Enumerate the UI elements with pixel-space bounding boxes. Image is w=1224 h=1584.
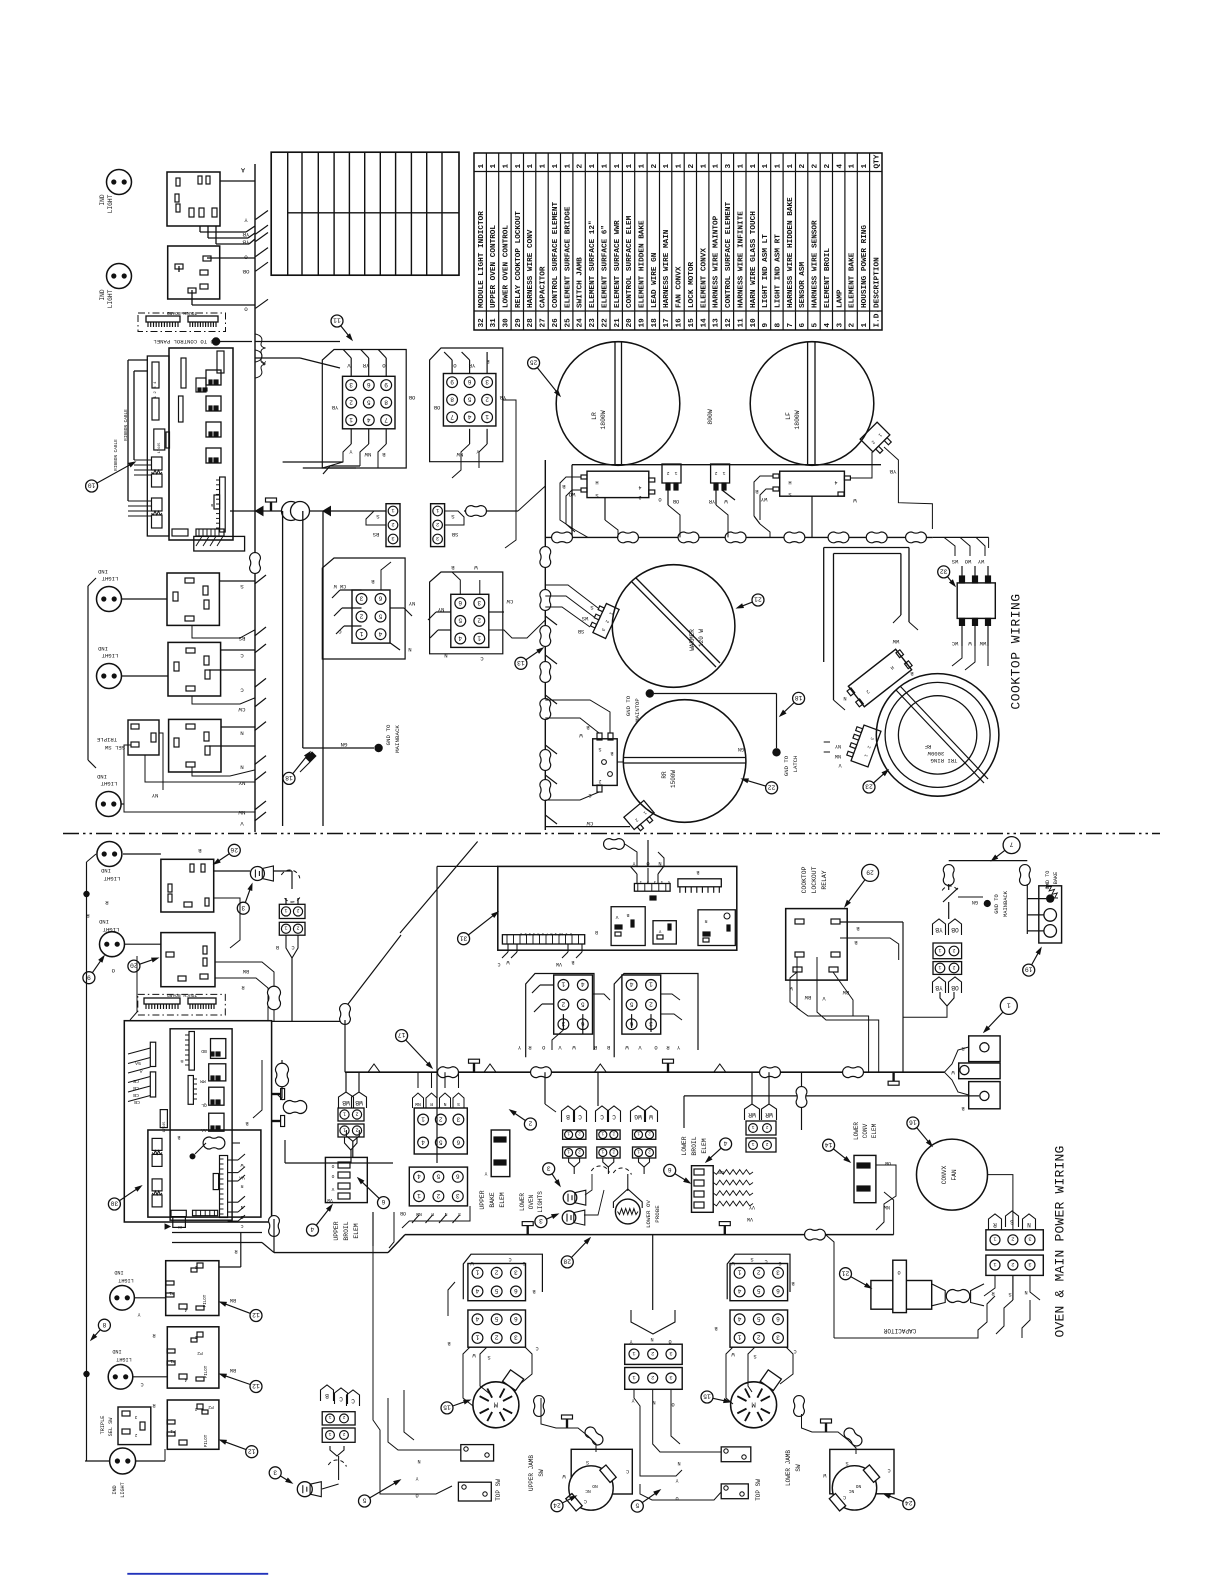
- U11a top stubs: [350, 358, 352, 376]
- svg-text:3: 3: [547, 1164, 551, 1171]
- svg-text:2: 2: [638, 494, 641, 500]
- svg-text:1: 1: [938, 964, 941, 970]
- svg-text:IND: IND: [112, 1348, 121, 1354]
- oven relay box 20: [161, 933, 215, 987]
- svg-text:A: A: [241, 166, 245, 173]
- vmerge top: [346, 1130, 359, 1141]
- 2x3 block C/W left: [463, 1254, 542, 1299]
- svg-text:N: N: [843, 695, 846, 701]
- svg-text:IND: IND: [100, 867, 111, 874]
- svg-text:1: 1: [477, 634, 481, 641]
- svg-text:1: 1: [674, 470, 677, 476]
- svg-text:4: 4: [638, 484, 641, 490]
- svg-text:WR: WR: [765, 1111, 773, 1118]
- svg-text:S: S: [487, 1354, 490, 1360]
- svg-text:30: 30: [503, 318, 511, 328]
- svg-text:2: 2: [688, 164, 696, 169]
- callout 12c: [222, 1441, 246, 1450]
- svg-text:WY: WY: [977, 558, 984, 564]
- left drop wire: [801, 1072, 803, 1130]
- lower jamb wires: [825, 1423, 827, 1432]
- wire stub: [256, 299, 269, 308]
- svg-text:1: 1: [417, 1192, 421, 1199]
- ind light IND8: [110, 1448, 136, 1474]
- control board inner column: [147, 356, 169, 536]
- triple sel sw box: [128, 720, 159, 755]
- svg-text:1: 1: [391, 507, 394, 513]
- svg-text:1: 1: [700, 164, 708, 169]
- ind light IND3: [97, 587, 122, 612]
- top 1x2 connector pairs: [563, 1130, 586, 1139]
- svg-text:TOUCH BOARD: TOUCH BOARD: [167, 992, 198, 998]
- svg-text:RELAY COOKTOP LOCKOUT: RELAY COOKTOP LOCKOUT: [515, 211, 523, 308]
- svg-text:19: 19: [639, 318, 647, 328]
- diagonal long wire: [345, 935, 401, 1008]
- svg-text:IND: IND: [97, 568, 108, 575]
- svg-text:6: 6: [776, 1287, 780, 1294]
- svg-text:2: 2: [349, 398, 353, 405]
- svg-text:C: C: [497, 961, 500, 967]
- svg-text:2: 2: [342, 1414, 345, 1420]
- svg-text:SB: SB: [451, 531, 458, 538]
- control board outer: [169, 348, 233, 540]
- TOP SW right set: [721, 1447, 751, 1462]
- svg-text:CONVX: CONVX: [941, 1165, 948, 1184]
- svg-text:R: R: [993, 1221, 997, 1228]
- svg-text:2: 2: [296, 925, 299, 931]
- baseline under elements: [572, 464, 881, 466]
- svg-text:3: 3: [456, 1115, 460, 1122]
- svg-text:UPPER: UPPER: [479, 1190, 486, 1209]
- svg-text:B: B: [566, 1113, 570, 1120]
- callout 10: [97, 463, 133, 483]
- B wire w grommets: [281, 1060, 283, 1098]
- svg-text:ELEMENT HIDDEN BAKE: ELEMENT HIDDEN BAKE: [639, 220, 647, 308]
- svg-text:WW: WW: [892, 638, 899, 644]
- svg-text:NO: NO: [856, 1483, 862, 1489]
- svg-text:2: 2: [495, 1334, 499, 1341]
- svg-text:5: 5: [629, 1000, 633, 1007]
- svg-text:4: 4: [458, 634, 462, 641]
- callout 7: [993, 850, 1005, 859]
- svg-text:C: C: [291, 944, 294, 950]
- svg-text:HARNESS WIRE MAINTOP: HARNESS WIRE MAINTOP: [713, 215, 721, 308]
- svg-text:BAKE: BAKE: [1053, 872, 1059, 884]
- right wire fans: [228, 1159, 238, 1161]
- YNO connector pair mid: [631, 1310, 675, 1334]
- svg-text:HARNESS WIRE MAIN: HARNESS WIRE MAIN: [663, 229, 671, 308]
- svg-text:2: 2: [765, 1141, 768, 1147]
- svg-text:M: M: [751, 1399, 756, 1407]
- svg-text:5: 5: [495, 1315, 499, 1322]
- svg-text:LIGHT IND ASM LT: LIGHT IND ASM LT: [762, 234, 770, 308]
- svg-text:1: 1: [421, 1115, 425, 1122]
- right area bus: [933, 536, 989, 538]
- svg-text:OVEN: OVEN: [528, 1194, 535, 1209]
- svg-text:IND: IND: [114, 1269, 123, 1275]
- svg-text:ELEM: ELEM: [499, 1192, 506, 1208]
- svg-text:LIGHT: LIGHT: [107, 194, 114, 213]
- svg-text:1: 1: [478, 164, 486, 169]
- svg-text:12: 12: [725, 318, 733, 328]
- svg-text:3000W: 3000W: [927, 750, 944, 757]
- grommet: [540, 780, 551, 801]
- svg-text:LOWER OVEN CONTROL: LOWER OVEN CONTROL: [503, 225, 511, 308]
- callout 31: [468, 913, 496, 935]
- svg-text:26: 26: [552, 318, 560, 328]
- svg-text:1: 1: [567, 1148, 570, 1153]
- svg-text:LIGHT IND ASM RT: LIGHT IND ASM RT: [775, 234, 783, 308]
- pilot sw 1: [166, 1261, 219, 1316]
- svg-text:17: 17: [663, 318, 671, 328]
- bottom stubs: [507, 944, 509, 952]
- svg-text:GND TO: GND TO: [783, 755, 790, 776]
- wire stub: [256, 211, 269, 220]
- svg-text:2: 2: [359, 612, 363, 619]
- grommet top: [250, 553, 261, 574]
- svg-text:S: S: [595, 492, 598, 498]
- svg-text:UPPER JAMB: UPPER JAMB: [528, 1455, 535, 1491]
- svg-text:YR: YR: [708, 498, 715, 504]
- svg-text:B: B: [961, 1105, 964, 1111]
- svg-text:6: 6: [367, 381, 371, 388]
- svg-text:2: 2: [296, 907, 299, 913]
- callout 21: [739, 602, 753, 607]
- 1-5 connector: [634, 884, 670, 892]
- svg-text:NW: NW: [884, 1204, 890, 1210]
- svg-text:4: 4: [417, 1173, 421, 1180]
- svg-text:ELEMENT SURFACE BRIDGE: ELEMENT SURFACE BRIDGE: [564, 206, 572, 308]
- warmer relay: [593, 739, 618, 786]
- svg-text:R: R: [241, 984, 244, 990]
- svg-text:2: 2: [355, 1110, 358, 1116]
- callout 12b: [222, 1375, 250, 1385]
- svg-text:RF: RF: [925, 743, 932, 750]
- stub: [545, 815, 557, 824]
- wire stub: [255, 801, 266, 810]
- svg-text:C: C: [240, 652, 244, 659]
- svg-text:V: V: [615, 914, 618, 920]
- svg-text:LIGHT: LIGHT: [100, 780, 117, 787]
- svg-text:ELEMENT CONVX: ELEMENT CONVX: [700, 248, 708, 308]
- svg-text:2: 2: [1011, 1261, 1014, 1267]
- long diagonal: [400, 842, 478, 934]
- wire stub: [255, 678, 266, 687]
- svg-text:16: 16: [676, 318, 684, 328]
- svg-text:1: 1: [750, 164, 758, 169]
- wire stub: [256, 248, 269, 257]
- wires caps to conn: [984, 1275, 995, 1296]
- svg-text:GND TO: GND TO: [994, 894, 1000, 913]
- svg-text:1: 1: [737, 1269, 741, 1276]
- parts list table: [474, 153, 882, 330]
- housing power ring: [1039, 886, 1062, 943]
- board under-tray: [194, 536, 245, 551]
- touch board 2: [138, 994, 226, 1015]
- svg-text:2: 2: [436, 1192, 440, 1199]
- module light indicator: [957, 583, 995, 619]
- svg-text:C: C: [626, 1468, 629, 1474]
- infinite switch block U11b outer: [430, 348, 503, 462]
- 2x3 block A inner: [352, 590, 390, 643]
- R S N connector 2: [986, 1255, 1043, 1275]
- element WARMER 120W: [612, 565, 735, 688]
- callout 4b: [708, 1148, 722, 1161]
- svg-text:1: 1: [1007, 1002, 1011, 1009]
- svg-text:LOWER OV: LOWER OV: [645, 1200, 652, 1228]
- svg-text:1: 1: [722, 470, 725, 476]
- bridge relay K2: [780, 471, 845, 496]
- grommet: [828, 532, 849, 543]
- 2x3 block A outer: [322, 558, 405, 659]
- svg-text:5: 5: [467, 396, 471, 403]
- svg-text:WARMER: WARMER: [689, 629, 696, 651]
- svg-text:19: 19: [1025, 966, 1033, 973]
- maintop bus: [544, 460, 546, 830]
- lock motor 2: [731, 1382, 777, 1428]
- svg-text:32: 32: [478, 318, 486, 328]
- upper oven board box: [498, 866, 737, 950]
- svg-text:1: 1: [567, 1130, 570, 1135]
- svg-text:4: 4: [367, 416, 371, 423]
- svg-text:B: B: [245, 1120, 248, 1126]
- svg-text:4: 4: [824, 323, 832, 328]
- svg-text:9: 9: [762, 323, 770, 328]
- svg-text:3: 3: [134, 1414, 137, 1419]
- svg-text:ELEMENT SURFACE 12": ELEMENT SURFACE 12": [589, 220, 597, 308]
- 1x2 conn pair: [279, 904, 305, 918]
- svg-text:2: 2: [648, 1148, 651, 1153]
- svg-text:BAKE: BAKE: [489, 1192, 496, 1208]
- bus accessories: [892, 1072, 894, 1081]
- svg-text:4: 4: [834, 479, 837, 485]
- svg-text:WW: WW: [979, 640, 986, 646]
- svg-text:PILOT: PILOT: [205, 1365, 209, 1378]
- main power bus: [345, 1071, 944, 1073]
- callout 20: [140, 959, 157, 965]
- callout 9: [92, 958, 103, 973]
- svg-text:1: 1: [328, 1431, 331, 1437]
- 2x3 block left lower: [468, 1310, 526, 1347]
- svg-text:LIGHT: LIGHT: [103, 875, 120, 882]
- svg-text:2: 2: [134, 1432, 137, 1437]
- svg-text:28: 28: [563, 1258, 571, 1265]
- callout 19: [1032, 950, 1040, 965]
- svg-text:2: 2: [577, 164, 585, 169]
- svg-text:SEL SW: SEL SW: [108, 1417, 114, 1437]
- svg-text:6: 6: [776, 1315, 780, 1322]
- WR pair connector: [746, 1121, 776, 1135]
- svg-text:1: 1: [359, 630, 363, 637]
- board components: [217, 351, 224, 373]
- lockout relay box: [786, 909, 848, 981]
- WB connector pair: [339, 1092, 354, 1108]
- wires to right: [272, 1020, 292, 1022]
- lower mate 2x3: [409, 1167, 467, 1206]
- svg-text:3: 3: [456, 1192, 460, 1199]
- svg-text:TRIPLE: TRIPLE: [96, 736, 117, 743]
- harness left rail: [436, 866, 438, 1163]
- svg-text:1: 1: [589, 164, 597, 169]
- svg-text:CAPACITOR: CAPACITOR: [540, 266, 548, 308]
- svg-text:1: 1: [938, 947, 941, 953]
- grommet: [540, 750, 551, 771]
- pilot sw 3: [167, 1400, 219, 1449]
- svg-text:15: 15: [443, 1404, 451, 1411]
- svg-text:FAN: FAN: [951, 1169, 958, 1180]
- grommet: [540, 662, 551, 683]
- svg-text:QL: QL: [201, 1102, 207, 1108]
- callout 11: [341, 326, 351, 339]
- svg-text:3: 3: [477, 599, 481, 606]
- svg-text:ELEM: ELEM: [353, 1223, 360, 1239]
- svg-text:GN: GN: [340, 741, 347, 748]
- callout 1: [985, 1012, 1003, 1031]
- ind light IND10: [108, 1365, 133, 1390]
- svg-text:GND TO CONTROL PANEL: GND TO CONTROL PANEL: [153, 338, 220, 345]
- svg-text:C: C: [843, 1494, 846, 1500]
- grommet: [540, 626, 551, 647]
- svg-text:5: 5: [581, 1000, 585, 1007]
- svg-text:13: 13: [713, 318, 721, 328]
- capacitor callout 21: [851, 1277, 870, 1287]
- svg-text:B: B: [626, 912, 629, 918]
- svg-text:TOP SW: TOP SW: [495, 1479, 502, 1501]
- svg-text:M: M: [493, 1399, 498, 1407]
- callout 32: [948, 577, 954, 585]
- svg-text:UPPER OVEN CONTROL: UPPER OVEN CONTROL: [490, 225, 498, 308]
- 2x3 block B outer: [430, 572, 503, 654]
- svg-text:NC: NC: [849, 1488, 855, 1494]
- callout 4a: [316, 1207, 331, 1226]
- switch contact: [942, 886, 958, 891]
- svg-text:6: 6: [381, 1198, 385, 1205]
- svg-text:CAPACITOR: CAPACITOR: [883, 1327, 916, 1334]
- svg-text:B: B: [177, 1134, 180, 1140]
- oven conn 2x3 pair: [526, 974, 594, 1058]
- svg-text:N: N: [240, 730, 244, 737]
- below-bus connectors left: stacked 2x3 pair: [413, 1093, 424, 1108]
- svg-text:1: 1: [475, 1269, 479, 1276]
- svg-text:VW: VW: [556, 961, 562, 967]
- relay wires right: [840, 921, 903, 923]
- svg-text:6: 6: [458, 599, 462, 606]
- svg-text:SWITCH JAMB: SWITCH JAMB: [577, 257, 585, 308]
- svg-text:1: 1: [632, 1350, 635, 1356]
- svg-text:6: 6: [467, 378, 471, 385]
- svg-text:O: O: [668, 1338, 671, 1344]
- svg-text:MM: MM: [200, 1078, 206, 1084]
- svg-text:3: 3: [776, 1334, 780, 1341]
- svg-text:3: 3: [1028, 1236, 1031, 1242]
- svg-text:TOUCH BOARD: TOUCH BOARD: [167, 310, 198, 316]
- svg-text:1: 1: [436, 507, 439, 513]
- svg-text:S: S: [750, 1256, 753, 1262]
- svg-text:R: R: [234, 1248, 237, 1254]
- wire stub: [255, 575, 266, 584]
- svg-text:3: 3: [514, 1334, 518, 1341]
- svg-text:WS: WS: [952, 558, 958, 564]
- svg-text:BD: BD: [201, 1048, 207, 1054]
- svg-text:NY: NY: [408, 600, 415, 607]
- svg-text:LIGHT: LIGHT: [107, 289, 114, 308]
- svg-text:2: 2: [648, 1130, 651, 1135]
- lock motor 1: [473, 1382, 519, 1428]
- slat middle line: [288, 212, 459, 214]
- svg-text:CW: CW: [238, 706, 245, 713]
- bottom connector strip: [220, 1156, 228, 1218]
- svg-text:1: 1: [993, 1261, 996, 1267]
- svg-text:9: 9: [87, 973, 91, 980]
- svg-text:C: C: [240, 686, 244, 693]
- svg-text:B: B: [696, 869, 699, 875]
- svg-text:3: 3: [776, 1269, 780, 1276]
- svg-text:2: 2: [342, 1431, 345, 1437]
- svg-text:R: R: [152, 1402, 155, 1408]
- svg-text:R: R: [240, 1183, 243, 1189]
- svg-text:O: O: [415, 1492, 418, 1498]
- long left vertical: [86, 862, 88, 1461]
- svg-text:2: 2: [952, 964, 955, 970]
- svg-text:BS: BS: [372, 531, 379, 538]
- svg-text:SW: SW: [795, 1464, 802, 1472]
- svg-text:YR: YR: [242, 231, 249, 238]
- svg-text:C: C: [584, 1498, 587, 1504]
- block U11a inner 3x3: [343, 376, 396, 429]
- svg-text:3: 3: [514, 1269, 518, 1276]
- svg-text:23: 23: [589, 318, 597, 328]
- svg-text:LOCK MOTOR: LOCK MOTOR: [688, 261, 696, 308]
- svg-text:B: B: [791, 1280, 794, 1286]
- bottom strip connector: [502, 935, 584, 944]
- svg-text:B: B: [447, 1340, 450, 1346]
- svg-text:1: 1: [503, 164, 511, 169]
- svg-text:2: 2: [578, 1148, 581, 1153]
- connector box J1: [167, 172, 220, 226]
- svg-text:LOCKOUT: LOCKOUT: [811, 866, 818, 893]
- svg-text:Y: Y: [658, 928, 661, 934]
- svg-text:14: 14: [825, 1141, 833, 1148]
- svg-text:S: S: [240, 583, 244, 590]
- svg-text:3: 3: [241, 904, 245, 911]
- svg-text:9: 9: [450, 378, 454, 385]
- svg-text:O: O: [331, 1173, 334, 1179]
- svg-text:MODULE LIGHT INDICTOR: MODULE LIGHT INDICTOR: [478, 211, 486, 308]
- svg-text:NY: NY: [834, 743, 841, 749]
- relay boxes inside: [611, 907, 645, 946]
- svg-text:6: 6: [456, 1138, 460, 1145]
- svg-text:WY: WY: [760, 496, 767, 503]
- svg-text:2: 2: [849, 323, 857, 328]
- svg-text:3: 3: [485, 378, 489, 385]
- svg-text:CW W: CW W: [333, 583, 346, 589]
- svg-text:1: 1: [713, 164, 721, 169]
- callout 23: [874, 771, 887, 783]
- svg-text:YB: YB: [242, 239, 249, 246]
- svg-text:21: 21: [754, 596, 762, 603]
- svg-text:C: C: [578, 1113, 582, 1120]
- svg-text:WO: WO: [965, 558, 971, 564]
- svg-text:1 2 3 4: 1 2 3 4: [154, 381, 158, 398]
- stub: [545, 655, 557, 664]
- svg-text:5: 5: [436, 1173, 440, 1180]
- svg-text:1: 1: [849, 164, 857, 169]
- svg-text:2: 2: [528, 1120, 532, 1127]
- svg-text:1: 1: [515, 164, 523, 169]
- grommet: [760, 1067, 781, 1078]
- wire stub: [255, 722, 266, 731]
- svg-text:2: 2: [765, 1124, 768, 1130]
